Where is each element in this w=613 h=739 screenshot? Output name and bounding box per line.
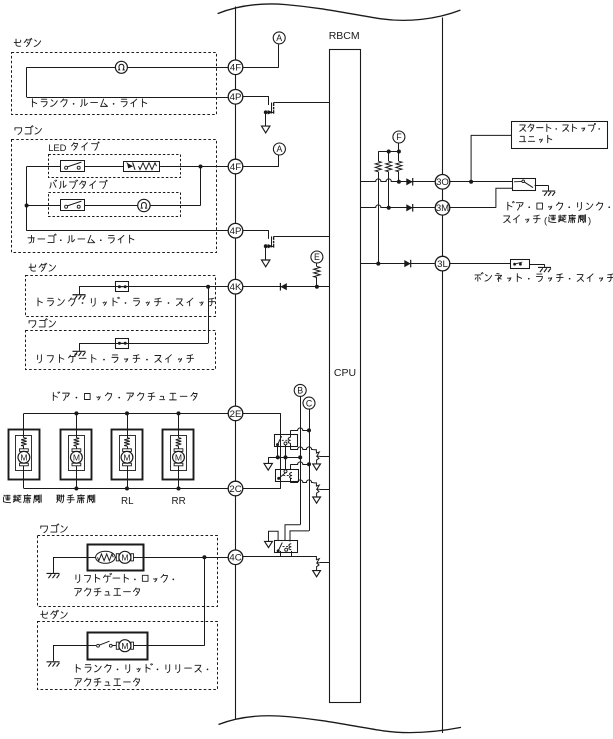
svg-text:RR: RR: [172, 496, 186, 507]
svg-text:3O: 3O: [436, 177, 449, 188]
svg-text:CPU: CPU: [334, 367, 356, 379]
svg-text:M: M: [175, 452, 182, 462]
svg-text:M: M: [121, 641, 128, 651]
svg-text:RL: RL: [121, 496, 134, 507]
svg-text:3M: 3M: [436, 203, 449, 214]
svg-text:E: E: [314, 252, 320, 262]
svg-text:4C: 4C: [229, 553, 241, 564]
svg-text:B: B: [297, 386, 303, 396]
svg-text:4P: 4P: [230, 226, 242, 237]
svg-text:LED: LED: [48, 142, 66, 153]
svg-text:A: A: [276, 33, 282, 43]
svg-text:RBCM: RBCM: [329, 30, 360, 42]
svg-text:4P: 4P: [230, 92, 242, 103]
svg-text:C: C: [306, 398, 313, 408]
svg-text:4F: 4F: [230, 63, 241, 74]
svg-text:4F: 4F: [230, 162, 241, 173]
svg-text:M: M: [121, 552, 128, 562]
svg-text:A: A: [276, 144, 282, 154]
svg-text:M: M: [123, 452, 130, 462]
svg-text:2C: 2C: [229, 484, 241, 495]
svg-text:3L: 3L: [437, 259, 448, 270]
svg-text:M: M: [73, 452, 80, 462]
svg-text:F: F: [396, 132, 402, 142]
svg-text:4K: 4K: [230, 282, 242, 293]
svg-text:2E: 2E: [230, 409, 242, 420]
svg-text:): ): [588, 215, 591, 226]
svg-text:M: M: [20, 452, 27, 462]
